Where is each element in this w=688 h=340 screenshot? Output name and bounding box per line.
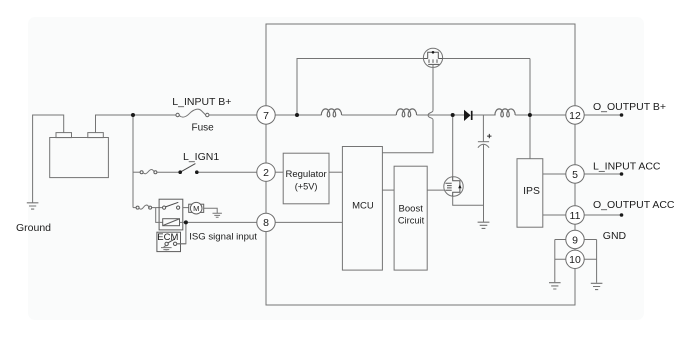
- wire main line pin7 to L1: [275, 114, 321, 116]
- wire relay to motor: [183, 207, 189, 209]
- pin 2: [257, 163, 275, 181]
- ECM switch blade: [168, 239, 175, 243]
- svg-text:O_OUTPUT B+: O_OUTPUT B+: [593, 101, 666, 113]
- IPS U5 box: [517, 159, 543, 228]
- transistor Q2 circle: [444, 177, 463, 196]
- wire IGN branch: [133, 171, 140, 173]
- ground (battery): [27, 203, 39, 209]
- battery BAT: [50, 133, 109, 178]
- transistor Q1 circle: [423, 48, 442, 67]
- ground (motor): [213, 213, 222, 217]
- Q1 gate lead with hop over main line: [432, 64, 434, 110]
- inductor L2: [396, 109, 416, 117]
- fuse F2 (IGN): [140, 170, 157, 174]
- wire pin 5 stub: [584, 173, 621, 175]
- pin 10: [566, 250, 584, 268]
- Q1 body dot: [432, 51, 435, 54]
- motor M circle: [190, 202, 202, 214]
- wire L2 to diode: [417, 114, 464, 116]
- wire node to Q2 drain: [452, 115, 454, 177]
- wire regulator to MCU: [329, 171, 342, 173]
- svg-text:MCU: MCU: [352, 201, 374, 212]
- wire pins 9/10 left bracket: [555, 240, 567, 283]
- svg-text:10: 10: [569, 254, 581, 266]
- relay blade: [166, 202, 179, 207]
- wire pins 9/10 right bracket: [584, 240, 597, 283]
- wire diode to L3: [472, 114, 496, 116]
- svg-text:Boost: Boost: [399, 204, 424, 215]
- wire top bypass left: [297, 59, 423, 116]
- svg-text:ECM: ECM: [157, 232, 178, 243]
- wire boost to Q2 gate: [427, 189, 445, 191]
- pin 8: [257, 213, 275, 231]
- pin 7: [257, 106, 275, 124]
- svg-text:L_INPUT B+: L_INPUT B+: [172, 96, 231, 108]
- diode D1: [464, 110, 471, 121]
- pin 9: [566, 230, 584, 248]
- ground (left of pin 9/10): [549, 283, 561, 289]
- svg-text:7: 7: [263, 110, 269, 122]
- svg-text:2: 2: [263, 167, 269, 179]
- junction node dots: [131, 113, 135, 117]
- relay coil feed stub: [156, 208, 163, 223]
- ECM internal ground: [164, 246, 167, 248]
- wire battery negative to ground: [33, 115, 64, 203]
- relay coil: [163, 219, 180, 226]
- svg-text:9: 9: [572, 234, 578, 246]
- pin 12: [566, 106, 584, 124]
- regulator U2 box: [283, 153, 329, 204]
- Q2 source to cap line: [453, 196, 484, 205]
- ground (C1): [478, 222, 490, 228]
- svg-text:GND: GND: [603, 230, 627, 242]
- main unit box: [266, 24, 575, 305]
- relay K1 box: [159, 199, 183, 230]
- fuse F3 (ISG): [136, 205, 152, 209]
- wire top bypass right: [443, 59, 530, 159]
- svg-text:O_OUTPUT ACC: O_OUTPUT ACC: [593, 199, 675, 211]
- wire motor to ground: [204, 208, 217, 213]
- ground (right of pin 9/10): [591, 283, 603, 289]
- wire L3 to pin 12: [515, 114, 566, 116]
- wire MCU to boost: [382, 189, 394, 191]
- wire fuse2 to switch: [157, 171, 180, 173]
- wire IPS to pin 5: [543, 173, 566, 175]
- svg-text:Regulator: Regulator: [285, 169, 326, 180]
- svg-text:Ground: Ground: [16, 222, 51, 234]
- wire battery positive to node: [96, 115, 177, 133]
- svg-text:(+5V): (+5V): [295, 181, 318, 191]
- svg-text:5: 5: [572, 169, 578, 181]
- wire pin8 to MCU: [275, 221, 342, 223]
- svg-text:Fuse: Fuse: [192, 123, 215, 134]
- Q2 internals: [453, 177, 460, 196]
- svg-text:ISG signal input: ISG signal input: [189, 232, 257, 243]
- ECM box: [157, 232, 181, 251]
- pin number labels: [263, 110, 581, 266]
- connector pins: [257, 106, 584, 269]
- wire fuse3 to relay box: [152, 207, 162, 209]
- Q1 internals: [424, 58, 443, 60]
- wire node down the left branch: [132, 115, 134, 208]
- fuse F1: [176, 109, 209, 117]
- pin 11: [566, 206, 584, 224]
- block labels: [157, 169, 540, 243]
- capacitor C1 (polarized): [478, 141, 489, 143]
- switch SW1 (L_IGN1) blade: [180, 164, 195, 173]
- pin 5: [566, 165, 584, 183]
- svg-text:12: 12: [569, 110, 581, 122]
- Q2 body arrow: [458, 184, 461, 188]
- inductor L3: [495, 109, 515, 117]
- wire pin 11 stub: [584, 214, 621, 216]
- capacitor + sign: [487, 134, 491, 138]
- wire ISG branch to fuse3: [133, 207, 136, 209]
- relay contact circles: [163, 206, 166, 209]
- svg-text:Circuit: Circuit: [398, 215, 425, 225]
- wire L1 to L2: [342, 114, 397, 116]
- wire/net labels: [16, 96, 675, 243]
- boost converter U4 box: [394, 166, 427, 270]
- wire pin2 to regulator: [275, 171, 283, 173]
- wire cap branch: [482, 115, 484, 142]
- wire switch to pin 2: [198, 171, 256, 173]
- svg-text:8: 8: [263, 217, 269, 229]
- wire fuse to pin 7: [209, 114, 257, 116]
- ECM switch contacts: [165, 242, 168, 245]
- wire IPS to pin 11: [543, 214, 566, 216]
- wire junction down to ECM: [177, 222, 186, 243]
- wire pin 12 stub: [584, 114, 621, 116]
- MCU U3 box: [342, 147, 382, 271]
- svg-text:M: M: [193, 204, 199, 213]
- svg-text:11: 11: [570, 210, 581, 222]
- wire ECM to junction: [177, 243, 186, 245]
- svg-text:L_IGN1: L_IGN1: [183, 151, 219, 163]
- wire coil to pin 8: [180, 221, 257, 223]
- svg-text:IPS: IPS: [523, 186, 540, 197]
- inductor L1: [321, 109, 341, 117]
- svg-text:L_INPUT ACC: L_INPUT ACC: [593, 160, 661, 172]
- motor M mount tabs: [189, 204, 192, 212]
